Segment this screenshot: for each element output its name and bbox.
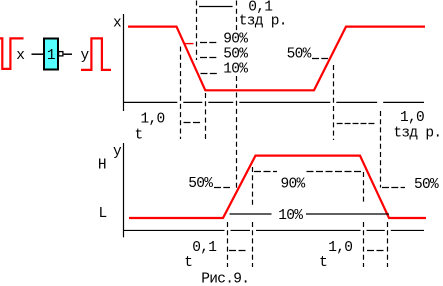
svg-text:50%: 50% [287, 46, 312, 62]
svg-text:0,1: 0,1 [192, 240, 216, 256]
dashed line: fall 10% crossing of y [387, 222, 389, 267]
label H (high level) [98, 158, 106, 174]
10% level line [230, 213, 390, 215]
dashed line: input rise 50% crossing [333, 65, 335, 140]
svg-text:Рис.9.: Рис.9. [201, 271, 249, 286]
label 1,0 (fall time of y) [328, 240, 352, 256]
dashed line: rise 90% crossing of y [252, 167, 254, 267]
svg-text:x: x [16, 48, 25, 64]
label tzd r. (right) [393, 125, 441, 141]
svg-text:90%: 90% [281, 177, 306, 193]
dashed line: tzd(1,0) right limit / output fall 50% [380, 111, 382, 188]
label t (fall time of y) [319, 255, 327, 271]
label 10% (bottom diagram) [278, 208, 303, 224]
svg-text:50%: 50% [188, 176, 213, 192]
dashed line: tzd(0,1) right limit / output 50% [236, 1, 238, 189]
svg-text:y: y [81, 48, 90, 64]
dashed line: rise 10% crossing of y [227, 222, 229, 267]
90% tick on falling edge (red) [184, 43, 194, 45]
label L (low level) [99, 206, 107, 222]
label 1,0 (fall time of x) [141, 111, 165, 127]
svg-text:10%: 10% [223, 62, 248, 78]
dashed line: fall 90% crossing [180, 47, 182, 140]
svg-text:x: x [113, 16, 122, 32]
svg-text:1,0: 1,0 [141, 111, 165, 127]
label tzd r. (top) [239, 13, 287, 29]
svg-text:L: L [99, 206, 107, 222]
label x (top diagram axis) [113, 16, 122, 32]
gate label 1 [47, 48, 55, 64]
label 1,0 (tzd right) [400, 110, 424, 126]
dashed line: fall 10% crossing [205, 93, 207, 139]
dashes tzd(1,0) bracket [337, 123, 377, 125]
inversion bubble [59, 52, 63, 56]
svg-text:90%: 90% [223, 32, 248, 48]
label 0,1 (top) [248, 0, 272, 15]
wire (gate input) [32, 53, 44, 55]
label 50% (falling edge of y) [414, 177, 439, 193]
horizontal axis (top diagram) [123, 101, 424, 103]
dashes 50% leader to rising edge [312, 58, 328, 60]
label 50% (rising edge of x) [287, 46, 312, 62]
svg-text:10%: 10% [278, 208, 303, 224]
dashes 90% row [200, 42, 217, 44]
caption Ris.9. [201, 271, 249, 286]
label x (gate input) [16, 48, 25, 64]
label 90% [223, 32, 248, 48]
waveform y (bottom diagram, red) [129, 156, 426, 218]
vertical axis (bottom diagram) [123, 143, 125, 237]
label 50% [223, 47, 248, 63]
vertical axis (top diagram) [123, 14, 125, 111]
svg-text:tзд р.: tзд р. [239, 13, 287, 29]
dashes fall-time bracket of y [367, 250, 384, 252]
svg-text:t: t [319, 255, 327, 271]
svg-text:t: t [184, 255, 192, 271]
wire (gate output) [64, 53, 72, 55]
dashes 10% row [201, 73, 218, 75]
svg-text:1,0: 1,0 [400, 110, 424, 126]
svg-text:1,0: 1,0 [328, 240, 352, 256]
label 0,1 (rise time of y) [192, 240, 216, 256]
svg-text:y: y [113, 144, 122, 160]
dashes 50% leader to rising edge of y [214, 187, 230, 189]
dashes rise-time bracket of y [229, 250, 248, 252]
label 50% (rising edge of y) [188, 176, 213, 192]
dashed line: fall 90% crossing of y [363, 172, 365, 267]
label 10% [223, 62, 248, 78]
input pulse waveform (schematic, left) [0, 38, 24, 69]
dashed line: tzd(0,1) left limit [196, 1, 198, 61]
label 90% (bottom diagram) [281, 177, 306, 193]
dashes 50% row [200, 57, 217, 59]
svg-text:t: t [135, 128, 143, 144]
horizontal axis (bottom diagram) [123, 229, 424, 231]
svg-text:50%: 50% [414, 177, 439, 193]
label y (gate output) [81, 48, 90, 64]
svg-text:50%: 50% [223, 47, 248, 63]
dashed 90% level line [254, 171, 362, 173]
waveform x (top diagram, red) [128, 27, 425, 91]
svg-text:1: 1 [47, 48, 55, 64]
label t (fall time of x) [135, 128, 143, 144]
dashes fall-time bracket [184, 122, 201, 124]
label y (bottom diagram axis) [113, 144, 122, 160]
measurement bar tzd(0,1) [199, 6, 233, 8]
output pulse waveform (schematic, right) [81, 38, 111, 70]
dashes 50% leader to falling edge of y [382, 187, 405, 189]
svg-text:H: H [98, 158, 106, 174]
svg-text:tзд р.: tзд р. [393, 125, 441, 141]
inverter gate body [44, 39, 58, 70]
label t (rise time of y) [184, 255, 192, 271]
